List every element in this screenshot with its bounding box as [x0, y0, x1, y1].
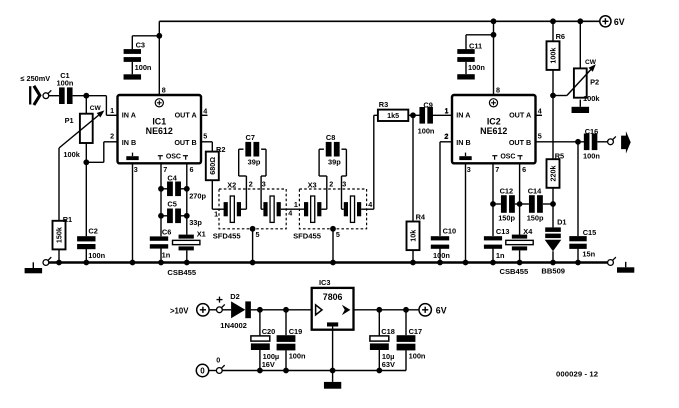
svg-text:100k: 100k — [583, 94, 600, 103]
svg-text:NE612: NE612 — [480, 126, 507, 136]
svg-text:270p: 270p — [189, 192, 206, 201]
svg-text:1: 1 — [110, 106, 114, 115]
svg-text:16V: 16V — [262, 360, 275, 369]
svg-text:C8: C8 — [326, 133, 335, 142]
svg-text:1: 1 — [294, 200, 298, 209]
svg-text:IC3: IC3 — [319, 278, 331, 287]
svg-text:C13: C13 — [496, 227, 510, 236]
svg-text:IN A: IN A — [456, 110, 470, 119]
svg-text:C18: C18 — [381, 327, 395, 336]
svg-text:8: 8 — [162, 86, 166, 95]
svg-text:OUT B: OUT B — [174, 138, 196, 147]
svg-text:CW: CW — [585, 59, 597, 66]
svg-text:100n: 100n — [583, 152, 600, 161]
svg-text:2: 2 — [249, 180, 253, 189]
svg-text:CSB455: CSB455 — [167, 268, 196, 277]
svg-text:C2: C2 — [88, 227, 97, 236]
svg-text:C7: C7 — [246, 133, 255, 142]
svg-text:IC2: IC2 — [487, 117, 501, 127]
svg-text:C5: C5 — [167, 200, 176, 209]
svg-text:2: 2 — [444, 132, 448, 141]
svg-text:R5: R5 — [555, 152, 564, 161]
svg-text:8: 8 — [496, 86, 500, 95]
svg-text:C3: C3 — [136, 41, 145, 50]
svg-text:IC1: IC1 — [152, 117, 166, 127]
svg-text:C10: C10 — [443, 227, 457, 236]
svg-text:≤ 250mV: ≤ 250mV — [21, 74, 51, 83]
svg-text:R1: R1 — [63, 215, 72, 224]
svg-text:NE612: NE612 — [146, 126, 173, 136]
svg-text:OUT A: OUT A — [509, 110, 531, 119]
svg-text:7: 7 — [495, 165, 499, 174]
svg-text:IN B: IN B — [456, 138, 470, 147]
svg-text:C9: C9 — [423, 101, 432, 110]
svg-text:>10V: >10V — [170, 306, 189, 315]
svg-text:150k: 150k — [55, 227, 64, 243]
svg-text:R4: R4 — [416, 213, 426, 222]
svg-text:X1: X1 — [197, 229, 206, 238]
svg-text:63V: 63V — [382, 360, 395, 369]
svg-text:150p: 150p — [498, 214, 515, 223]
svg-text:100n: 100n — [433, 251, 450, 260]
svg-text:5: 5 — [336, 230, 340, 239]
svg-text:100n: 100n — [135, 63, 152, 72]
svg-text:7806: 7806 — [323, 292, 343, 302]
svg-text:2: 2 — [110, 132, 114, 141]
svg-text:1N4002: 1N4002 — [220, 321, 247, 330]
svg-text:OUT A: OUT A — [175, 110, 197, 119]
svg-text:C19: C19 — [289, 327, 303, 336]
svg-text:X2: X2 — [227, 181, 236, 190]
svg-text:4: 4 — [288, 209, 292, 218]
svg-text:CW: CW — [90, 105, 102, 112]
svg-text:100n: 100n — [289, 352, 306, 361]
svg-text:C12: C12 — [500, 187, 514, 196]
svg-text:5: 5 — [256, 230, 260, 239]
svg-text:6: 6 — [190, 165, 194, 174]
svg-text:C4: C4 — [167, 173, 177, 182]
svg-text:1n: 1n — [162, 251, 171, 260]
svg-text:5: 5 — [538, 132, 542, 141]
svg-text:220k: 220k — [549, 166, 558, 182]
svg-text:4: 4 — [538, 106, 542, 115]
svg-text:4: 4 — [203, 106, 207, 115]
svg-text:C16: C16 — [585, 127, 599, 136]
svg-text:1: 1 — [444, 107, 448, 116]
svg-text:100n: 100n — [409, 352, 426, 361]
svg-text:R2: R2 — [216, 145, 225, 154]
svg-text:SFD455: SFD455 — [293, 231, 322, 240]
svg-text:6V: 6V — [436, 305, 447, 315]
svg-text:CSB455: CSB455 — [500, 267, 529, 276]
svg-text:3: 3 — [134, 165, 138, 174]
svg-text:1n: 1n — [496, 251, 505, 260]
svg-text:SFD455: SFD455 — [213, 231, 242, 240]
svg-text:6: 6 — [522, 165, 526, 174]
svg-text:R3: R3 — [379, 100, 388, 109]
svg-text:C6: C6 — [162, 227, 171, 236]
svg-text:39p: 39p — [248, 158, 261, 167]
svg-text:IN B: IN B — [122, 138, 136, 147]
svg-text:3: 3 — [262, 180, 266, 189]
svg-text:P1: P1 — [65, 116, 74, 125]
svg-text:X3: X3 — [308, 181, 317, 190]
svg-text:BB509: BB509 — [541, 267, 565, 276]
svg-text:C11: C11 — [469, 41, 482, 50]
svg-text:000029 - 12: 000029 - 12 — [556, 370, 598, 379]
svg-text:5: 5 — [203, 132, 207, 141]
svg-text:P2: P2 — [590, 78, 599, 87]
svg-text:D2: D2 — [230, 292, 239, 301]
svg-text:0: 0 — [200, 366, 205, 375]
svg-text:150p: 150p — [527, 214, 544, 223]
svg-text:X4: X4 — [523, 227, 533, 236]
svg-text:C17: C17 — [409, 327, 423, 336]
svg-text:2: 2 — [329, 180, 333, 189]
svg-text:33p: 33p — [189, 218, 202, 227]
svg-text:100n: 100n — [468, 63, 485, 72]
svg-text:D1: D1 — [557, 217, 566, 226]
svg-text:3: 3 — [342, 180, 346, 189]
svg-text:C20: C20 — [262, 327, 276, 336]
svg-text:R6: R6 — [556, 32, 565, 41]
svg-text:OUT B: OUT B — [509, 138, 531, 147]
svg-text:6V: 6V — [614, 17, 625, 27]
svg-text:100k: 100k — [63, 150, 80, 159]
svg-text:C15: C15 — [583, 228, 597, 237]
svg-text:39p: 39p — [328, 158, 341, 167]
svg-text:0: 0 — [216, 355, 220, 364]
svg-text:100n: 100n — [418, 127, 435, 136]
svg-text:15n: 15n — [582, 250, 595, 259]
svg-text:680Ω: 680Ω — [208, 157, 217, 175]
svg-text:3: 3 — [467, 165, 471, 174]
svg-text:100n: 100n — [57, 79, 74, 88]
svg-text:C14: C14 — [528, 187, 542, 196]
svg-text:100k: 100k — [549, 48, 558, 64]
svg-text:IN A: IN A — [122, 110, 136, 119]
svg-text:100n: 100n — [88, 251, 105, 260]
svg-text:OSC: OSC — [500, 154, 515, 161]
svg-text:10k: 10k — [409, 230, 418, 242]
svg-text:1k5: 1k5 — [387, 111, 399, 120]
svg-text:4: 4 — [368, 200, 372, 209]
svg-text:OSC: OSC — [166, 154, 181, 161]
svg-text:1: 1 — [214, 210, 218, 219]
